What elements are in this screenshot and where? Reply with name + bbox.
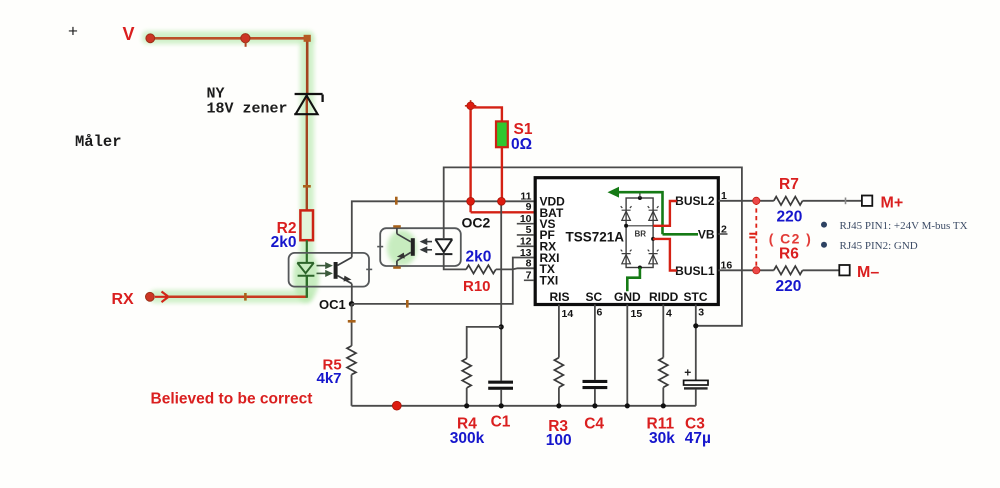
svg-text:300k: 300k [450,430,485,447]
svg-text:BUSL1: BUSL1 [675,264,715,278]
svg-text:R10: R10 [463,278,491,295]
OC2 received-light arrows [422,239,433,252]
svg-text:RJ45 PIN2: GND: RJ45 PIN2: GND [840,240,918,252]
svg-text:9: 9 [526,201,532,213]
svg-text:+: + [68,22,78,41]
svg-text:2k0: 2k0 [466,248,492,265]
svg-text:3: 3 [698,307,704,319]
svg-text:BUSL2: BUSL2 [675,194,715,208]
node bridge left [624,224,628,228]
svg-text:220: 220 [777,208,803,225]
OC1 emitted-light arrows [317,263,332,275]
svg-text:18V zener: 18V zener [207,101,288,118]
wire OC1 collector to VDD rail [352,201,534,257]
svg-text:M–: M– [857,264,879,281]
terminal M- square [839,265,849,275]
pin stub RX 12 [517,245,534,247]
svg-text:( C2 ): ( C2 ) [769,231,812,247]
wire S1 to BAT junction [501,147,503,201]
tick on RXI wire [406,300,409,308]
resistor R4 [462,358,471,388]
svg-text:0Ω: 0Ω [511,136,532,153]
svg-text:4k7: 4k7 [317,370,342,387]
node V terminal dot [146,34,155,43]
node rail dot R4 [464,403,469,408]
node rail dot C4 [592,403,597,408]
wire S1 red branch left vertical [469,106,471,213]
wire outer loop top [444,167,742,325]
svg-text:TXI: TXI [540,274,559,288]
svg-text:Believed to be correct: Believed to be correct [151,391,313,408]
bridge diode bottom-left [621,250,632,264]
svg-text:5: 5 [526,224,532,236]
chip U1 TSS721A body [535,178,718,305]
resistor R10 [466,265,496,273]
RX arrow [155,292,169,303]
OC2 LED [435,239,452,254]
terminal M+ square [862,196,872,206]
wire R3 to rail [558,387,560,405]
svg-text:V: V [123,24,135,44]
node OC1 emitter junction [349,301,355,307]
wire R4 to rail [466,388,468,406]
svg-text:10: 10 [520,213,532,225]
bridge diode bottom-right [648,250,659,264]
tick on VDD wire [395,197,398,205]
svg-text:7: 7 [526,270,532,282]
svg-text:C4: C4 [584,415,604,432]
wire OC1 emitter down to node [351,284,353,304]
svg-text:8: 8 [526,258,532,270]
wire S1 top horizontal [471,107,502,121]
wire GND pin 15 down [626,305,628,406]
node rail dot C1 [499,403,504,408]
node bridge right [651,237,655,241]
tick on zener-R2 wire [303,185,311,188]
pin stub PF 5 [517,234,534,236]
OC1 phototransistor [334,257,352,283]
svg-text:STC: STC [684,290,708,304]
pin stub VB 2 [718,233,727,235]
resistor R7 [774,197,803,205]
wire BUSL1 pin 16 to R6 [718,269,774,271]
wire OC2 LED cathode to R10 [444,254,466,269]
node red dot on rail [392,401,401,410]
svg-text:R6: R6 [779,245,799,262]
zener diode NY 18V [294,94,322,114]
OC2 emitter stub and tick [396,261,398,266]
bridge diode top-right [648,206,659,220]
svg-text:GND: GND [614,290,641,304]
svg-text:SC: SC [586,290,603,304]
svg-text:RX: RX [112,291,135,308]
opto-coupler OC2 body [380,228,461,266]
OC1 LED [297,263,314,276]
capacitor C2 dashed suggestion [755,201,757,270]
svg-text:TSS721A: TSS721A [566,229,625,244]
wire node down to R5 [351,304,353,346]
wire C4 to rail [594,389,596,406]
svg-text:OC2: OC2 [462,215,491,231]
wire RX horizontal [168,296,307,299]
svg-text:VB: VB [698,228,715,242]
wire R6 to M- [803,269,840,271]
highlight glow RX wire [150,290,312,303]
resistor R11 [659,358,668,388]
pin stub VS 10 [517,223,534,225]
svg-text:4: 4 [666,307,672,319]
svg-text:BR: BR [635,230,647,239]
node red junction dot B on VDD wire [498,197,506,205]
svg-text:15: 15 [631,308,643,320]
note bullet 2 [821,242,827,248]
wire R7 to M+ [803,200,862,202]
wire GND green [627,268,640,292]
svg-text:RIDD: RIDD [649,290,679,304]
wire R5 to ground rail [351,375,353,406]
node rail dot GND [625,403,630,408]
svg-text:2k0: 2k0 [271,234,297,251]
svg-text:47µ: 47µ [685,430,711,447]
highlight glow OC1 LED [293,252,319,302]
wire V corner down to zener [306,38,309,95]
wire OC1 node to RXI pin 13 [352,258,534,304]
note bullet 1 [821,222,827,228]
wire BUSL2 pin 1 to R7 [718,200,774,202]
node STC branch junction [693,323,698,328]
highlight glow vertical zener/R2 path [300,36,314,258]
svg-text:RJ45 PIN1: +24V M-bus TX: RJ45 PIN1: +24V M-bus TX [840,220,968,232]
wire RIDD pin 4 down [662,305,664,358]
OC2 base tick [377,246,383,248]
node junction dot on V wire [241,34,250,43]
node S1 top junction with cross [465,100,476,111]
svg-text:OC1: OC1 [319,297,346,312]
bridge diode top-left [621,206,632,220]
wire R11 to rail [662,387,664,405]
wire BUSL2 red [653,201,677,226]
node bridge bottom [638,266,642,270]
wire red BAT pin 9 [471,211,534,213]
svg-text:6: 6 [597,306,603,318]
wire BUSL1 red [653,239,677,271]
node RX terminal dot [146,292,155,301]
svg-text:12: 12 [520,236,532,248]
svg-text:14: 14 [562,308,574,320]
highlight glow V wire [142,31,314,44]
capacitor C4 [583,380,608,383]
resistor R5 [347,346,356,375]
wire RX corner up into OC1 [306,276,308,298]
node rail dot R11 [661,403,666,408]
wire C1 to rail [500,390,502,406]
OC2 phototransistor [397,234,415,261]
svg-text:M+: M+ [881,194,904,211]
wire long vertical to C1 [500,201,502,380]
wire C3 to rail [695,390,697,406]
svg-text:100: 100 [546,432,572,449]
wire V horizontal [150,37,307,40]
capacitor C1 [488,381,513,384]
resistor R2 (box style) [300,210,313,240]
node rail dot R3 [556,403,561,408]
tick on M+ wire [845,198,847,205]
tick on R5 wire [348,320,356,323]
resistor R3 [554,358,563,388]
wire VB green [663,233,699,236]
node bridge top [638,196,642,200]
svg-text:220: 220 [776,278,802,295]
wire bottom ground rail [352,405,696,407]
wire bridge top stub [639,192,641,198]
highlight glow OC2 transistor [387,230,417,266]
bridge rectifier BR body [626,198,653,268]
svg-text:RIS: RIS [550,290,570,304]
wire branch to R4 [467,327,502,359]
svg-text:30k: 30k [649,430,675,447]
wire SC pin 6 down [594,305,596,380]
wire R10 to TX pin 8 [496,268,534,269]
wire STC pin 3 down [695,305,697,381]
svg-text:C1: C1 [491,413,511,430]
svg-text:Måler: Måler [75,133,122,151]
resistor S1 (0 ohm link, green body) [496,121,508,147]
OC1 base tick [366,268,372,270]
wire R2 to OC1 LED [306,240,308,263]
svg-text:R7: R7 [779,176,799,193]
tick on RX wire [244,293,247,301]
pin stub TXI 7 [524,279,534,281]
node R4 branch junction [499,324,504,329]
svg-text:+: + [684,366,691,380]
OC2 collector stub and tick [396,228,398,234]
green arrow wire [616,192,663,234]
node red junction dot A on VDD wire [467,197,475,205]
wire RIS pin 14 down [558,305,560,358]
opto-coupler OC1 body [289,253,369,287]
resistor R6 [774,266,803,274]
